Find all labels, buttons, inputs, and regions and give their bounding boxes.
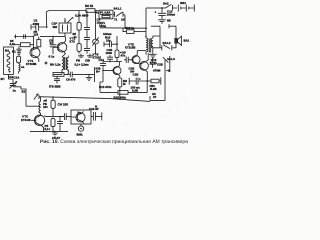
- capacitor C17: [129, 77, 147, 85]
- svg-text:5Б: 5Б: [167, 19, 171, 23]
- jack resistor R14: [147, 77, 161, 85]
- wire speaker to SA1.2: [172, 44, 176, 48]
- capacitor chain x87: [84, 11, 90, 54]
- svg-text:SA1.1: SA1.1: [114, 7, 122, 11]
- svg-text:+: +: [139, 77, 141, 81]
- svg-text:б 1к: б 1к: [49, 55, 55, 59]
- battery GB1: [178, 5, 194, 12]
- svg-text:2,2к: 2,2к: [10, 42, 16, 46]
- wire x117: [116, 36, 118, 50]
- svg-text:С8 470: С8 470: [66, 78, 76, 82]
- svg-text:SA1.2: SA1.2: [163, 41, 171, 45]
- resistor R12 emitter: [118, 78, 122, 99]
- resistor R7: [77, 11, 81, 44]
- svg-text:SA2: SA2: [163, 2, 169, 6]
- capacitor C8: [50, 37, 57, 54]
- wire filter bottom bus: [40, 36, 65, 38]
- capacitor C16 out: [91, 112, 102, 121]
- transistor VT3: [53, 37, 67, 57]
- svg-text:са: са: [21, 65, 25, 69]
- svg-text:КП: КП: [1, 77, 5, 81]
- svg-text:КТ315Б: КТ315Б: [26, 62, 37, 66]
- transistor VT2 osc: [31, 115, 45, 132]
- resistor (rail): [51, 97, 55, 108]
- mic amp box: [71, 110, 91, 124]
- ground x90: [87, 54, 93, 58]
- svg-text:Я.2В: Я.2В: [150, 87, 157, 91]
- transformer T3 output: [146, 36, 160, 55]
- capacitor into box: [61, 113, 71, 120]
- svg-text:4700: 4700: [33, 22, 40, 26]
- capacitor under detector: [54, 76, 60, 83]
- svg-text:1б: 1б: [121, 17, 125, 21]
- capacitor to ground (input): [16, 46, 21, 56]
- ground (battery filter): [158, 20, 166, 23]
- switch SA1.2: [153, 45, 172, 51]
- resistor collector VT1: [37, 37, 41, 47]
- svg-text:1а: 1а: [13, 89, 17, 93]
- svg-text:114: 114: [34, 33, 39, 37]
- node det: [67, 74, 69, 76]
- svg-text:9и: 9и: [78, 111, 82, 115]
- main ground rail: [39, 97, 151, 102]
- svg-text:R6 51: R6 51: [85, 4, 94, 8]
- node filter top: [64, 20, 66, 22]
- svg-text:Рис. 10. Схема электрическая п: Рис. 10. Схема электрическая принципиаль…: [40, 139, 188, 145]
- svg-text:Р1 0,5А: Р1 0,5А: [100, 11, 111, 15]
- transistor VT5: [129, 51, 140, 64]
- wire collector bus VT7: [103, 61, 122, 63]
- resistor R11: [115, 50, 119, 62]
- wire feedback top: [100, 82, 103, 92]
- resistor R6: [86, 9, 99, 13]
- transistor VT4 in box: [71, 111, 85, 123]
- capacitor C6: [70, 72, 78, 78]
- oscillator coil L: [26, 101, 41, 114]
- wire battery rail: [150, 7, 166, 9]
- svg-text:Б2: Б2: [22, 90, 26, 94]
- capacitor C26: [150, 58, 156, 68]
- svg-text:10к: 10к: [106, 38, 111, 42]
- capacitor C2 input: [24, 34, 26, 38]
- resistor R (detector): [53, 72, 70, 76]
- arrow (tuning): [34, 93, 39, 99]
- svg-text:2?: 2?: [153, 95, 157, 99]
- svg-text:С14: С14: [99, 58, 105, 62]
- ground (mid): [78, 74, 95, 80]
- svg-text:В1: В1: [12, 50, 16, 54]
- svg-text:С1А: С1А: [14, 76, 21, 80]
- resistor R15: [100, 91, 147, 95]
- antenna W1 box: [4, 47, 14, 74]
- transistor VT1: [30, 37, 40, 63]
- node: junction C3/top rail: [46, 26, 48, 28]
- wire VT5 collector to T3: [137, 50, 146, 52]
- svg-text:СН 100: СН 100: [58, 103, 69, 107]
- svg-text:С16 4Р: С16 4Р: [89, 107, 99, 111]
- switch SA1.1: [113, 12, 125, 28]
- node rail2/x146: [145, 27, 147, 29]
- capacitor C12: [155, 8, 167, 19]
- jack box: [150, 60, 165, 101]
- svg-text:КТ3: КТ3: [70, 40, 76, 44]
- resistor R10 top: [104, 41, 117, 47]
- wire AGC vertical: [94, 67, 96, 82]
- node mark: [45, 62, 47, 64]
- svg-text:6,3В: 6,3В: [132, 89, 138, 93]
- svg-text:15+: 15+: [43, 105, 48, 109]
- switch SA2: [166, 4, 178, 10]
- speaker BA1: [174, 36, 181, 45]
- resistor R3 (left stack): [17, 56, 21, 63]
- svg-text:R16 1к: R16 1к: [125, 26, 135, 30]
- transformer T2: [62, 56, 68, 75]
- resistor R1: [13, 43, 33, 47]
- svg-text:/ТВ ЕВБ: /ТВ ЕВБ: [49, 85, 61, 89]
- wire speaker feed: [151, 24, 176, 47]
- resistor R8: [77, 44, 81, 54]
- resistor R5: [51, 119, 55, 132]
- svg-text:470М: 470М: [153, 69, 161, 73]
- svg-text:С2Б: С2Б: [157, 63, 163, 67]
- resistor R16: [123, 28, 146, 34]
- svg-text:ЗА1.3: ЗА1.3: [167, 57, 175, 61]
- svg-text:47к: 47к: [121, 54, 126, 58]
- svg-text:100мк: 100мк: [167, 13, 176, 17]
- wire VT6 emitter down: [146, 81, 148, 92]
- inductor L1 (left stack): [19, 63, 20, 74]
- svg-text:ЭМ: ЭМ: [53, 25, 58, 29]
- wire osc collector bus: [44, 108, 64, 116]
- svg-text:ВА1: ВА1: [184, 39, 190, 43]
- node C17/VT6: [146, 80, 148, 82]
- svg-text:+: +: [155, 10, 157, 14]
- svg-text:ВМ1: ВМ1: [77, 133, 83, 137]
- transistor VT7: [103, 62, 121, 79]
- svg-text:КТ315Б: КТ315Б: [125, 46, 136, 50]
- bottom ground rail: [30, 130, 68, 132]
- svg-text:R13 470к: R13 470к: [99, 85, 112, 89]
- wire tuning cap: [8, 74, 13, 79]
- transistor VT6: [138, 53, 149, 81]
- svg-text:С1Б: С1Б: [133, 73, 139, 77]
- electromech filter Z1: [59, 18, 74, 37]
- switch SA1.3: [163, 56, 170, 72]
- svg-text:GB1: GB1: [180, 1, 186, 5]
- ground x81: [78, 54, 84, 58]
- wire rail2: [100, 27, 146, 29]
- svg-text:КТ3+Ж: КТ3+Ж: [21, 118, 31, 122]
- svg-text:0,1+ 2,2мк: 0,1+ 2,2мк: [75, 63, 90, 67]
- svg-text:15: 15: [97, 21, 101, 25]
- capacitor C13: [107, 55, 113, 62]
- svg-text:71: 71: [114, 17, 118, 21]
- wire base cap C14: [100, 62, 106, 83]
- wire to oscillator: [13, 87, 26, 106]
- capacitor C15: [124, 57, 129, 63]
- capacitor C3: [31, 23, 47, 30]
- wire input bus: [14, 34, 34, 38]
- ground (secondary): [149, 48, 157, 58]
- wire B+ vertical x146: [146, 8, 150, 38]
- trimmer C4: [92, 11, 98, 55]
- svg-text:С14: С14: [8, 75, 14, 79]
- ground (bottom rail): [52, 131, 58, 136]
- microphone BM1: [78, 124, 83, 131]
- fuse FU1 box: [99, 10, 113, 19]
- wire top-left corner to C3 node: [46, 11, 86, 27]
- svg-text:5,1+: 5,1+: [45, 127, 51, 131]
- svg-text:⊣о: ⊣о: [166, 69, 171, 73]
- svg-text:ВН 1,2к: ВН 1,2к: [50, 63, 61, 67]
- svg-text:1000: 1000: [106, 51, 113, 55]
- node battery/C12: [161, 7, 163, 9]
- node: [52, 36, 54, 38]
- variable capacitor C2: [9, 79, 17, 88]
- capacitor C7: [57, 117, 63, 132]
- svg-text:В+: В+: [96, 70, 100, 74]
